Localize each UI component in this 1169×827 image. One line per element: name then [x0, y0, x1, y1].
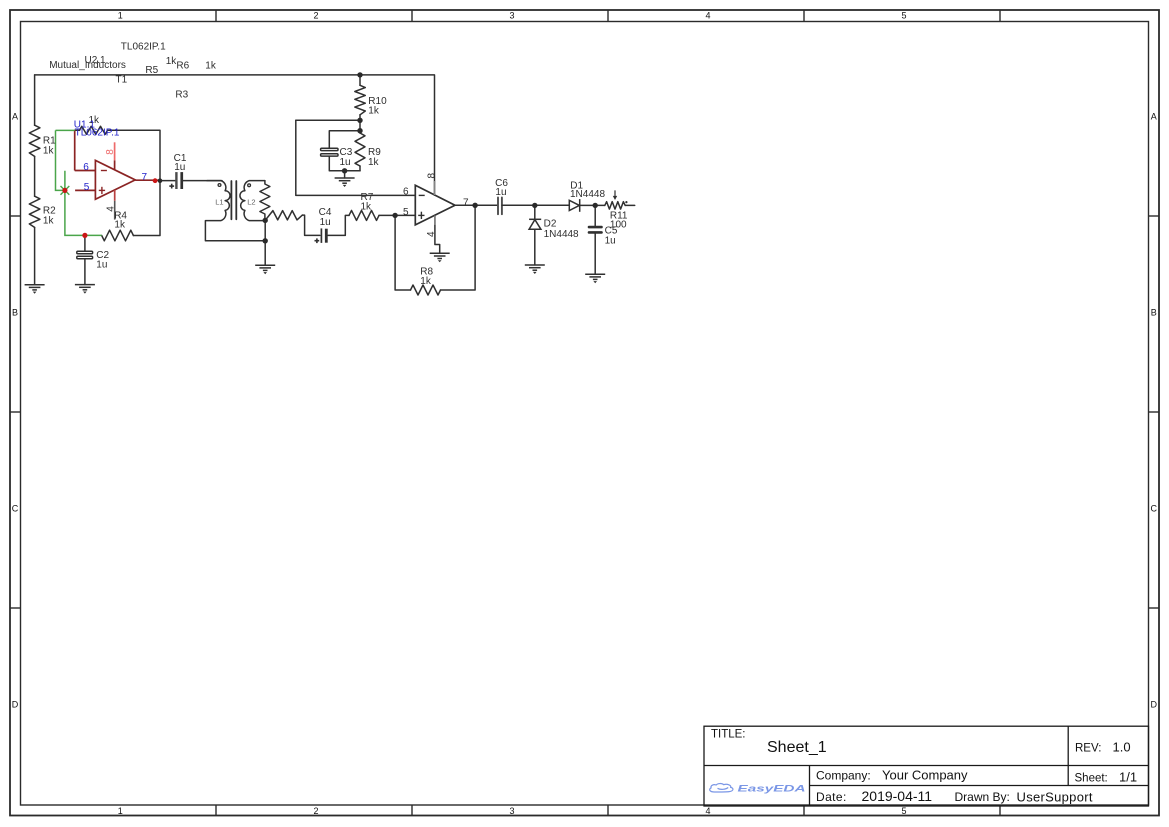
svg-text:1u: 1u [605, 235, 616, 246]
svg-text:C: C [1151, 504, 1158, 514]
svg-text:1u: 1u [340, 157, 351, 168]
svg-text:8: 8 [105, 149, 116, 155]
svg-text:R6: R6 [176, 61, 189, 72]
svg-text:D2: D2 [544, 218, 557, 229]
svg-text:1k: 1k [114, 219, 126, 230]
svg-text:1N4448: 1N4448 [570, 189, 605, 200]
svg-text:1.0: 1.0 [1113, 740, 1131, 755]
svg-text:1: 1 [118, 806, 123, 816]
svg-text:7: 7 [142, 172, 148, 183]
svg-text:L1: L1 [215, 198, 223, 207]
svg-text:3: 3 [509, 11, 514, 21]
svg-text:4: 4 [705, 806, 710, 816]
svg-text:1u: 1u [495, 187, 506, 198]
svg-text:B: B [1151, 308, 1157, 318]
svg-text:4: 4 [426, 231, 437, 237]
svg-text:1/1: 1/1 [1119, 769, 1137, 784]
svg-text:1k: 1k [368, 106, 380, 117]
svg-text:A: A [12, 112, 18, 122]
svg-text:1u: 1u [174, 162, 185, 173]
svg-text:1k: 1k [361, 202, 373, 213]
svg-text:1k: 1k [420, 276, 432, 287]
svg-text:1N4448: 1N4448 [544, 229, 579, 240]
svg-text:Your Company: Your Company [882, 767, 968, 782]
svg-text:TL062IP.1: TL062IP.1 [121, 41, 166, 52]
svg-text:6: 6 [403, 186, 409, 197]
svg-text:5: 5 [84, 182, 90, 193]
svg-text:1k: 1k [368, 157, 380, 168]
svg-text:B: B [12, 308, 18, 318]
svg-text:Company:: Company: [816, 768, 871, 782]
svg-text:EasyEDA: EasyEDA [738, 784, 806, 794]
svg-text:C: C [12, 504, 19, 514]
svg-text:5: 5 [403, 207, 409, 218]
svg-text:Sheet:: Sheet: [1075, 772, 1108, 784]
svg-text:4: 4 [105, 206, 116, 212]
svg-text:2019-04-11: 2019-04-11 [862, 788, 933, 804]
svg-text:2: 2 [313, 11, 318, 21]
svg-text:REV:: REV: [1075, 743, 1101, 755]
svg-text:5: 5 [901, 11, 906, 21]
svg-text:R5: R5 [145, 65, 158, 76]
svg-text:8: 8 [426, 173, 437, 179]
svg-text:UserSupport: UserSupport [1017, 789, 1093, 804]
svg-text:TITLE:: TITLE: [711, 729, 746, 741]
svg-text:1k: 1k [43, 216, 55, 227]
svg-text:4: 4 [705, 11, 710, 21]
svg-text:1k: 1k [205, 61, 217, 72]
svg-text:D: D [1151, 700, 1158, 710]
svg-text:1k: 1k [43, 146, 55, 157]
svg-text:Mutual_Inductors: Mutual_Inductors [49, 60, 126, 71]
svg-text:Drawn By:: Drawn By: [955, 790, 1010, 804]
svg-text:1u: 1u [320, 217, 331, 228]
svg-text:1: 1 [118, 11, 123, 21]
svg-text:1u: 1u [96, 259, 107, 270]
svg-text:R3: R3 [175, 89, 188, 100]
svg-text:T1: T1 [116, 74, 128, 85]
svg-text:7: 7 [463, 197, 469, 208]
svg-text:6: 6 [83, 162, 89, 173]
svg-text:100: 100 [610, 220, 627, 231]
svg-text:3: 3 [509, 806, 514, 816]
svg-text:L2: L2 [247, 198, 255, 207]
svg-text:2: 2 [313, 806, 318, 816]
svg-text:5: 5 [901, 806, 906, 816]
svg-text:Date:: Date: [816, 790, 847, 804]
svg-text:Sheet_1: Sheet_1 [767, 739, 827, 756]
svg-text:A: A [1151, 112, 1157, 122]
svg-text:TL062IP.1: TL062IP.1 [75, 128, 120, 139]
svg-text:D: D [12, 700, 19, 710]
